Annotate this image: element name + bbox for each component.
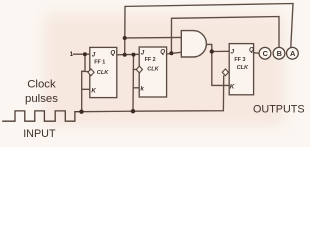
- svg-text:J: J: [92, 51, 96, 58]
- junction dot clock rail FF1: [79, 110, 83, 114]
- AND gate U1: [181, 31, 206, 57]
- wire AND output to J3: [207, 44, 230, 51]
- svg-text:B: B: [277, 49, 282, 58]
- junction dot rail1 top input: [123, 36, 127, 40]
- svg-text:OUTPUTS: OUTPUTS: [253, 104, 305, 116]
- FF1 clock diamond: [88, 69, 94, 76]
- output circle C: [259, 47, 271, 59]
- wire Q2 to AND bottom input: [167, 52, 182, 54]
- flip-flop FF2 box: [139, 47, 166, 97]
- svg-text:pulses: pulses: [25, 93, 58, 105]
- clock waveform: [3, 111, 81, 121]
- svg-text:J: J: [231, 49, 235, 56]
- wire AND top input from node at x124.7: [125, 36, 182, 39]
- svg-text:FF 1: FF 1: [94, 60, 105, 66]
- svg-text:FF 3: FF 3: [234, 57, 245, 63]
- junction dot Q1: [123, 53, 127, 57]
- junction dot AND out: [210, 49, 214, 53]
- svg-text:Q: Q: [160, 49, 165, 56]
- wire Q3 to C: [254, 52, 260, 54]
- wire FF1 CLK stub: [82, 70, 89, 72]
- svg-text:FF 2: FF 2: [145, 57, 156, 63]
- svg-text:CLK: CLK: [237, 65, 249, 71]
- svg-text:CLK: CLK: [147, 67, 159, 73]
- wire FF1 JK tie vertical: [82, 54, 85, 111]
- svg-text:Clock: Clock: [27, 79, 56, 91]
- wire rail2 Q2 to B: [171, 17, 279, 54]
- junction dot Q2: [169, 51, 173, 55]
- junction dot J1: [83, 52, 87, 56]
- flip-flop FF3 box: [229, 44, 254, 95]
- wire FF2 CLK stub: [133, 69, 137, 71]
- svg-text:A: A: [290, 49, 296, 58]
- wire 1 to J1: [74, 53, 90, 55]
- wire FF2 JK tie vertical: [132, 55, 135, 111]
- svg-text:J: J: [141, 50, 145, 57]
- svg-text:1: 1: [70, 51, 74, 58]
- wire FF2 K stub: [133, 87, 139, 89]
- wire FF1 K stub: [82, 88, 90, 90]
- junction dot FF2 tie: [132, 53, 136, 57]
- flip-flop FF1 box: [90, 47, 117, 97]
- wire AND output branch to K3: [212, 52, 229, 86]
- svg-text:K: K: [91, 87, 96, 94]
- wire clock rail: [81, 76, 224, 112]
- svg-text:C: C: [263, 49, 269, 58]
- FF3 clock diamond: [222, 69, 228, 76]
- svg-text:CLK: CLK: [97, 70, 109, 76]
- junction dot clock rail FF2: [131, 109, 135, 113]
- wire Q1 to J2: [117, 53, 139, 56]
- output circle B: [273, 47, 285, 59]
- wire rail1 Q1 to A: [125, 4, 293, 55]
- svg-text:INPUT: INPUT: [23, 128, 56, 140]
- svg-text:k: k: [140, 85, 144, 92]
- FF2 clock diamond: [136, 66, 142, 73]
- svg-text:K: K: [230, 84, 235, 91]
- output circle A: [287, 47, 299, 59]
- svg-text:Q: Q: [249, 47, 254, 54]
- svg-text:Q: Q: [110, 50, 115, 57]
